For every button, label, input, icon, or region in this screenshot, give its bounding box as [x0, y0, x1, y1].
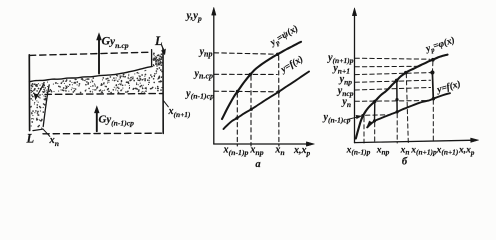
- point on equilibrium curve at x_(n+1)p: [404, 71, 408, 75]
- point (x_n, y_np) on equilibrium curve: [276, 53, 279, 56]
- svg-text:б: б: [402, 157, 408, 168]
- left downcomer slanted wall: [43, 85, 49, 127]
- upper boundary dashed line: [30, 52, 151, 55]
- dashed vertical x_n (b): [396, 114, 398, 144]
- point (x_np, y_n.cp) on equilibrium curve: [249, 73, 252, 76]
- left downcomer bottom edge: [33, 129, 43, 130]
- dashed level y_np: [214, 53, 276, 54]
- intermediate point on x_n vertical: [395, 98, 398, 101]
- liquid inlet arrow under L (top right): [162, 45, 165, 52]
- bold segment x_n between curves: [396, 81, 398, 112]
- graph a x-axis: [214, 143, 311, 145]
- dashed level y_n (b): [355, 88, 431, 91]
- dashed vertical x_np (b): [374, 123, 376, 144]
- dashed level y_n.cp: [214, 73, 277, 75]
- dashed vertical x_(n+1) upper part: [432, 62, 434, 72]
- svg-text:х(п+1)р: х(п+1)р: [410, 146, 437, 157]
- graph b y-axis: [354, 11, 356, 143]
- froth stipple texture: [31, 53, 162, 128]
- lower boundary dashed line: [43, 132, 162, 135]
- graph b equilibrium curve y_p=phi(x): [356, 55, 448, 139]
- vapour arrow G y_(n-1)cp (shaft): [96, 110, 98, 132]
- point on y=f(x) at x_np (b): [373, 119, 376, 122]
- liquid flow arrow in left downcomer: [36, 84, 44, 98]
- dashed vertical x_np: [250, 76, 252, 146]
- dashed vertical x_(n-1)p (b): [363, 118, 365, 144]
- svg-text:х(п+1): х(п+1): [436, 146, 459, 157]
- froth surface wavy line: [29, 66, 152, 81]
- svg-text:хп: хп: [400, 146, 410, 157]
- bold segment x_(n+1) between point and curve: [431, 73, 434, 99]
- point (x_(n-1)p,y_(n-1)cp) on curve (b): [361, 114, 364, 117]
- arrow from label y_(n-1)cp to curve point: [348, 117, 360, 120]
- construction point at (x_(n+1), y_np): [430, 70, 434, 74]
- svg-text:L: L: [154, 34, 163, 48]
- point on y=f(x) at x_n (b): [396, 110, 399, 113]
- svg-text:хпр: хпр: [376, 146, 390, 157]
- svg-text:а: а: [255, 159, 260, 170]
- dashed level y_ncp (b): [355, 80, 431, 82]
- point (x_(n-1)p, y_(n-1)cp) on equilibrium curve: [236, 90, 239, 93]
- point on equilibrium curve at x_(n+1): [431, 58, 435, 62]
- point on y=f(x) at x_(n+1): [432, 97, 435, 100]
- graph a y-axis: [213, 10, 215, 144]
- downcomer inner wall top right: [151, 50, 153, 67]
- graph b curve y=f(x): [367, 93, 450, 127]
- tray plate dashed line: [45, 93, 163, 96]
- pointer line to x_(n+1) label: [163, 100, 168, 107]
- dashed vertical x_(n+1)p (b): [406, 74, 408, 144]
- dashed level at y~101: [355, 100, 428, 103]
- dashed level y_np (b): [355, 73, 431, 75]
- svg-text:х(п-1)р: х(п-1)р: [346, 146, 371, 157]
- graph a equilibrium curve y_p=psi(x): [222, 42, 301, 119]
- point on equilibrium curve at x_np (b): [373, 100, 376, 103]
- point on y=f(x) at x_np: [250, 108, 253, 111]
- right wall / downcomer outer wall: [162, 49, 164, 134]
- point (x_n, y_(n-1)cp) on y=f(x): [277, 90, 280, 93]
- point on equilibrium curve at x_n (b): [395, 79, 399, 83]
- arrowhead at start of y=f(x) curve: [367, 121, 373, 128]
- dashed level y_(n+1)p: [355, 58, 430, 59]
- dashed level y_n+1: [355, 65, 418, 68]
- svg-text:L: L: [26, 132, 35, 146]
- point on y=f(x) at x_(n-1)p: [235, 117, 238, 120]
- graph a curve y=f(x): [224, 72, 310, 130]
- dashed segment right of y_(n-1)cp point: [366, 114, 391, 116]
- graph b x-axis: [355, 140, 476, 142]
- solid segment x_np between curves: [374, 102, 376, 121]
- pointer line to x_n label: [43, 129, 50, 137]
- dashed vertical x_n: [278, 56, 280, 146]
- dashed vertical x_(n-1)p: [236, 93, 238, 146]
- dashed level y_(n-1)cp: [214, 90, 277, 93]
- dashed vertical x_(n+1) lower part: [432, 100, 434, 143]
- vapour arrow G y_n.cp (shaft): [98, 37, 100, 74]
- tray column left wall: [28, 55, 30, 131]
